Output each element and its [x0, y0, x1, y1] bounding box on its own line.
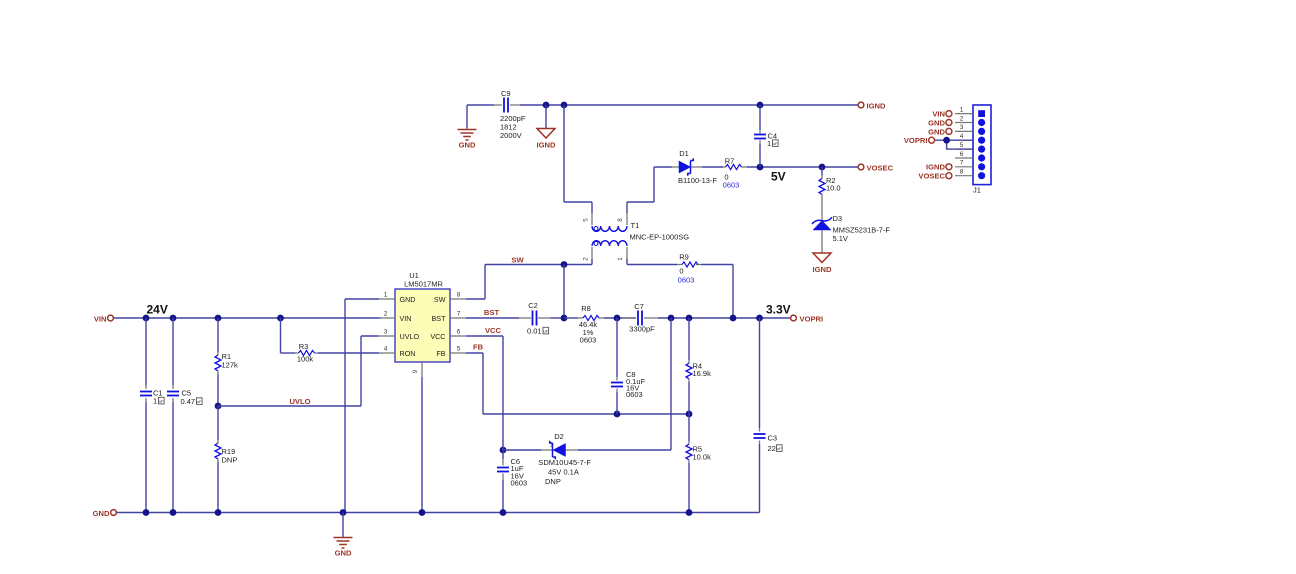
- wire VCC to D2: [503, 449, 541, 451]
- svg-text:1: 1: [960, 106, 964, 113]
- svg-text:SDM10U45-7-F: SDM10U45-7-F: [538, 458, 591, 467]
- svg-text:0603: 0603: [511, 479, 528, 488]
- pin 6 U1 VCC: [430, 329, 466, 341]
- resistor R9: [677, 253, 701, 276]
- capacitor C8: [611, 318, 646, 414]
- wire SW to C2: [563, 265, 565, 319]
- pin 1 J1: [955, 106, 985, 117]
- svg-text:SW: SW: [434, 295, 446, 304]
- junction (transformer sec left): [561, 102, 568, 109]
- svg-text:R3: R3: [299, 342, 309, 351]
- svg-text:uF: uF: [197, 399, 202, 404]
- junction R5 bottom: [686, 509, 693, 516]
- svg-text:GND: GND: [928, 127, 945, 136]
- junction R19 bottom: [215, 509, 222, 516]
- svg-text:C7: C7: [634, 302, 644, 311]
- svg-text:0603: 0603: [626, 390, 643, 399]
- junction SW/C2: [561, 261, 568, 268]
- svg-text:7: 7: [457, 311, 461, 318]
- junction C5 top: [170, 315, 177, 322]
- ground IGND (top): [537, 105, 557, 150]
- port VIN: [94, 315, 114, 324]
- svg-text:4: 4: [384, 346, 388, 353]
- wire VOPRI to pins 4/5: [935, 140, 973, 149]
- svg-text:5V: 5V: [771, 170, 786, 184]
- pin 8 J1: [955, 169, 985, 180]
- svg-text:45V 0.1A: 45V 0.1A: [548, 468, 579, 477]
- pin 2 U1 VIN: [379, 311, 411, 323]
- ground GND (rail): [334, 513, 353, 558]
- wire pri to R9: [627, 264, 677, 266]
- wire R9 to VOPRI bus: [701, 265, 733, 319]
- junction R2 top: [819, 164, 826, 171]
- wire sec to D1: [654, 166, 672, 168]
- diode D2: [538, 432, 591, 486]
- wire UVLO net: [218, 336, 379, 406]
- svg-text:2000V: 2000V: [500, 131, 522, 140]
- svg-text:D3: D3: [833, 214, 843, 223]
- junction EP bottom: [419, 509, 426, 516]
- pin 7 U1 BST: [432, 311, 466, 323]
- pin 5 U1 FB: [436, 346, 466, 358]
- svg-text:8: 8: [457, 292, 461, 299]
- wire VCC net: [466, 336, 503, 444]
- svg-text:VOPRI: VOPRI: [904, 136, 928, 145]
- svg-text:VIN: VIN: [94, 315, 107, 324]
- resistor R3: [281, 318, 380, 364]
- capacitor C3: [754, 318, 778, 513]
- wire to R8: [564, 317, 578, 319]
- svg-text:VIN: VIN: [932, 110, 945, 119]
- resistor R5: [686, 414, 711, 513]
- svg-text:FB: FB: [473, 343, 484, 352]
- svg-text:T1: T1: [631, 221, 640, 230]
- svg-text:1: 1: [153, 397, 157, 406]
- svg-text:1: 1: [550, 442, 554, 449]
- svg-text:R8: R8: [581, 304, 591, 313]
- svg-text:FB: FB: [436, 349, 445, 358]
- port IGND (J1): [926, 163, 952, 172]
- wire C7 to VOPRI port: [658, 317, 793, 319]
- pin 1 U1 GND: [379, 292, 415, 304]
- svg-text:1: 1: [384, 292, 388, 299]
- junction (C4 top): [757, 102, 764, 109]
- junction R4 top: [686, 315, 693, 322]
- capacitor C4: [754, 105, 777, 167]
- wire GND rail: [117, 512, 760, 514]
- svg-text:2: 2: [583, 257, 590, 261]
- port VOPRI: [791, 315, 824, 324]
- svg-text:GND: GND: [93, 509, 110, 518]
- junction D2 branch: [668, 315, 675, 322]
- ground GND (under C9): [458, 105, 477, 150]
- svg-text:GND: GND: [400, 295, 416, 304]
- junction C1 bottom: [143, 509, 150, 516]
- op-amp U1 LM5017MR body: [395, 271, 450, 362]
- svg-text:VCC: VCC: [485, 326, 502, 335]
- svg-text:100k: 100k: [297, 355, 314, 364]
- svg-text:0603: 0603: [580, 336, 597, 345]
- resistor R19: [215, 406, 237, 513]
- svg-text:IGND: IGND: [813, 265, 833, 274]
- pin 3 U1 UVLO: [379, 329, 419, 341]
- svg-text:10.0: 10.0: [826, 184, 841, 193]
- svg-text:B1100-13-F: B1100-13-F: [678, 176, 717, 185]
- value C4 1uF: [767, 139, 771, 148]
- capacitor C2: [519, 301, 550, 336]
- wire sec-right lead: [627, 167, 654, 225]
- svg-text:7: 7: [960, 160, 964, 167]
- pin 8 U1 SW: [434, 292, 466, 304]
- svg-text:uF: uF: [773, 141, 778, 146]
- svg-text:9: 9: [412, 369, 419, 373]
- pin 3 J1: [955, 124, 985, 135]
- junction VOPRI split: [943, 137, 950, 144]
- svg-text:3: 3: [960, 124, 964, 131]
- svg-text:BST: BST: [484, 308, 500, 317]
- wire pin8 to SW: [466, 298, 485, 300]
- port VOSEC: [858, 164, 894, 173]
- capacitor C7: [622, 302, 658, 334]
- port GND (J1 pin3): [928, 127, 952, 136]
- svg-text:VOPRI: VOPRI: [800, 315, 824, 324]
- svg-text:8: 8: [617, 218, 624, 222]
- svg-text:uF: uF: [159, 398, 164, 403]
- svg-text:uF: uF: [543, 328, 548, 333]
- resistor R7: [723, 157, 747, 182]
- svg-text:uF: uF: [777, 446, 782, 451]
- svg-text:SW: SW: [511, 256, 524, 265]
- svg-text:RON: RON: [400, 349, 416, 358]
- svg-text:3: 3: [384, 329, 388, 336]
- pin 2 J1: [955, 115, 985, 126]
- svg-text:3300pF: 3300pF: [629, 325, 655, 334]
- svg-text:2: 2: [960, 115, 964, 122]
- port GND (J1 pin2): [928, 118, 952, 127]
- wire pri-left lead: [591, 247, 593, 265]
- junction C3 top: [756, 315, 763, 322]
- pin 4 J1: [955, 133, 985, 144]
- wire BST net: [466, 317, 519, 319]
- resistor R2: [819, 167, 841, 220]
- junction R9 branch: [730, 315, 737, 322]
- svg-text:6: 6: [457, 329, 461, 336]
- svg-text:5: 5: [457, 346, 461, 353]
- svg-text:3.3V: 3.3V: [766, 303, 791, 317]
- svg-text:VCC: VCC: [430, 332, 445, 341]
- svg-text:DNP: DNP: [545, 477, 561, 486]
- resistor R8: [578, 304, 604, 337]
- svg-text:0: 0: [679, 267, 683, 276]
- svg-text:VIN: VIN: [400, 314, 412, 323]
- svg-text:2: 2: [384, 311, 388, 318]
- junction C5 bottom: [170, 509, 177, 516]
- connector J1 body: [973, 105, 991, 195]
- svg-text:4: 4: [960, 133, 964, 140]
- wire C2 to junction: [550, 317, 565, 319]
- port IGND: [858, 102, 886, 111]
- svg-text:LM5017MR: LM5017MR: [404, 280, 443, 289]
- svg-text:5: 5: [583, 218, 590, 222]
- port GND: [93, 509, 117, 518]
- junction SW/R8: [561, 315, 568, 322]
- pin 4 U1 RON: [379, 346, 415, 358]
- svg-text:BST: BST: [432, 314, 447, 323]
- svg-text:10.0k: 10.0k: [693, 453, 712, 462]
- pin 5 J1: [955, 142, 985, 153]
- svg-text:UVLO: UVLO: [400, 332, 420, 341]
- svg-text:0603: 0603: [723, 181, 740, 190]
- wire R7 to VOSEC port: [747, 166, 858, 168]
- junction C8 top: [614, 315, 621, 322]
- svg-text:1: 1: [617, 257, 624, 261]
- resistor R1: [215, 318, 238, 406]
- svg-text:J1: J1: [973, 186, 981, 195]
- svg-text:C2: C2: [528, 301, 538, 310]
- wire SW net: [485, 265, 592, 300]
- svg-text:GND: GND: [335, 549, 352, 558]
- svg-text:0.47: 0.47: [181, 397, 196, 406]
- junction R4 bottom: [686, 411, 693, 418]
- port VOSEC (J1): [918, 172, 951, 181]
- wire IGND top bus: [467, 104, 858, 106]
- wire GND net (U1 pin 1): [345, 299, 379, 513]
- capacitor C1: [140, 318, 163, 513]
- capacitor C9: [500, 89, 526, 140]
- svg-text:5: 5: [960, 142, 964, 149]
- junction D2 anode: [500, 447, 507, 454]
- capacitor C6: [497, 444, 527, 513]
- junction GND symbol: [340, 509, 347, 516]
- svg-text:22: 22: [768, 444, 776, 453]
- svg-text:0.01: 0.01: [527, 327, 542, 336]
- wire R8 to C7: [604, 317, 636, 319]
- svg-text:1: 1: [767, 139, 771, 148]
- pin 6 J1: [955, 151, 985, 162]
- svg-text:8: 8: [960, 169, 964, 176]
- svg-text:0603: 0603: [678, 276, 695, 285]
- port VIN (J1): [932, 110, 952, 119]
- svg-text:R9: R9: [679, 253, 689, 262]
- junction C4 bottom: [757, 164, 764, 171]
- transformer T1 primary winding: [592, 241, 627, 246]
- svg-text:GND: GND: [459, 141, 476, 150]
- port VOPRI (J1): [904, 136, 935, 145]
- zener diode D3: [812, 214, 890, 243]
- svg-text:24V: 24V: [147, 303, 168, 317]
- svg-text:127k: 127k: [222, 361, 239, 370]
- diode D1: [671, 149, 717, 185]
- wire D2 to output: [578, 318, 671, 450]
- junction C1 top: [143, 315, 150, 322]
- svg-text:UVLO: UVLO: [289, 397, 310, 406]
- wire sec-left lead: [564, 105, 592, 225]
- svg-text:IGND: IGND: [537, 141, 557, 150]
- junction R1 top: [215, 315, 222, 322]
- svg-text:IGND: IGND: [867, 102, 887, 111]
- wire FB net: [466, 353, 689, 414]
- svg-text:16.9k: 16.9k: [693, 369, 712, 378]
- svg-text:6: 6: [960, 151, 964, 158]
- svg-text:DNP: DNP: [222, 456, 238, 465]
- capacitor C5: [167, 318, 195, 513]
- junction C8 bottom: [614, 411, 621, 418]
- wire VIN bus: [114, 317, 381, 319]
- label T1: [630, 221, 690, 242]
- svg-text:VOSEC: VOSEC: [918, 172, 945, 181]
- svg-text:VOSEC: VOSEC: [867, 164, 894, 173]
- svg-text:C3: C3: [768, 434, 778, 443]
- wire D1 to R7: [702, 166, 723, 168]
- svg-text:5.1V: 5.1V: [833, 234, 848, 243]
- pin 9 U1 EP: [412, 362, 422, 513]
- junction (IGND stub): [543, 102, 550, 109]
- svg-text:C9: C9: [501, 89, 511, 98]
- svg-text:GND: GND: [928, 118, 945, 127]
- ground IGND (under D3): [813, 230, 833, 274]
- svg-text:IGND: IGND: [926, 163, 946, 172]
- svg-text:MNC-EP-1000SG: MNC-EP-1000SG: [630, 233, 690, 242]
- junction C6 bottom: [500, 509, 507, 516]
- pin 7 J1: [955, 160, 985, 171]
- wire pri-right lead: [626, 247, 628, 265]
- svg-text:D1: D1: [679, 149, 689, 158]
- resistor R4: [686, 318, 711, 414]
- junction R3 branch: [277, 315, 284, 322]
- transformer T1 secondary winding: [592, 226, 627, 231]
- svg-text:D2: D2: [554, 432, 564, 441]
- junction UVLO: [215, 403, 222, 410]
- svg-text:R7: R7: [725, 157, 735, 166]
